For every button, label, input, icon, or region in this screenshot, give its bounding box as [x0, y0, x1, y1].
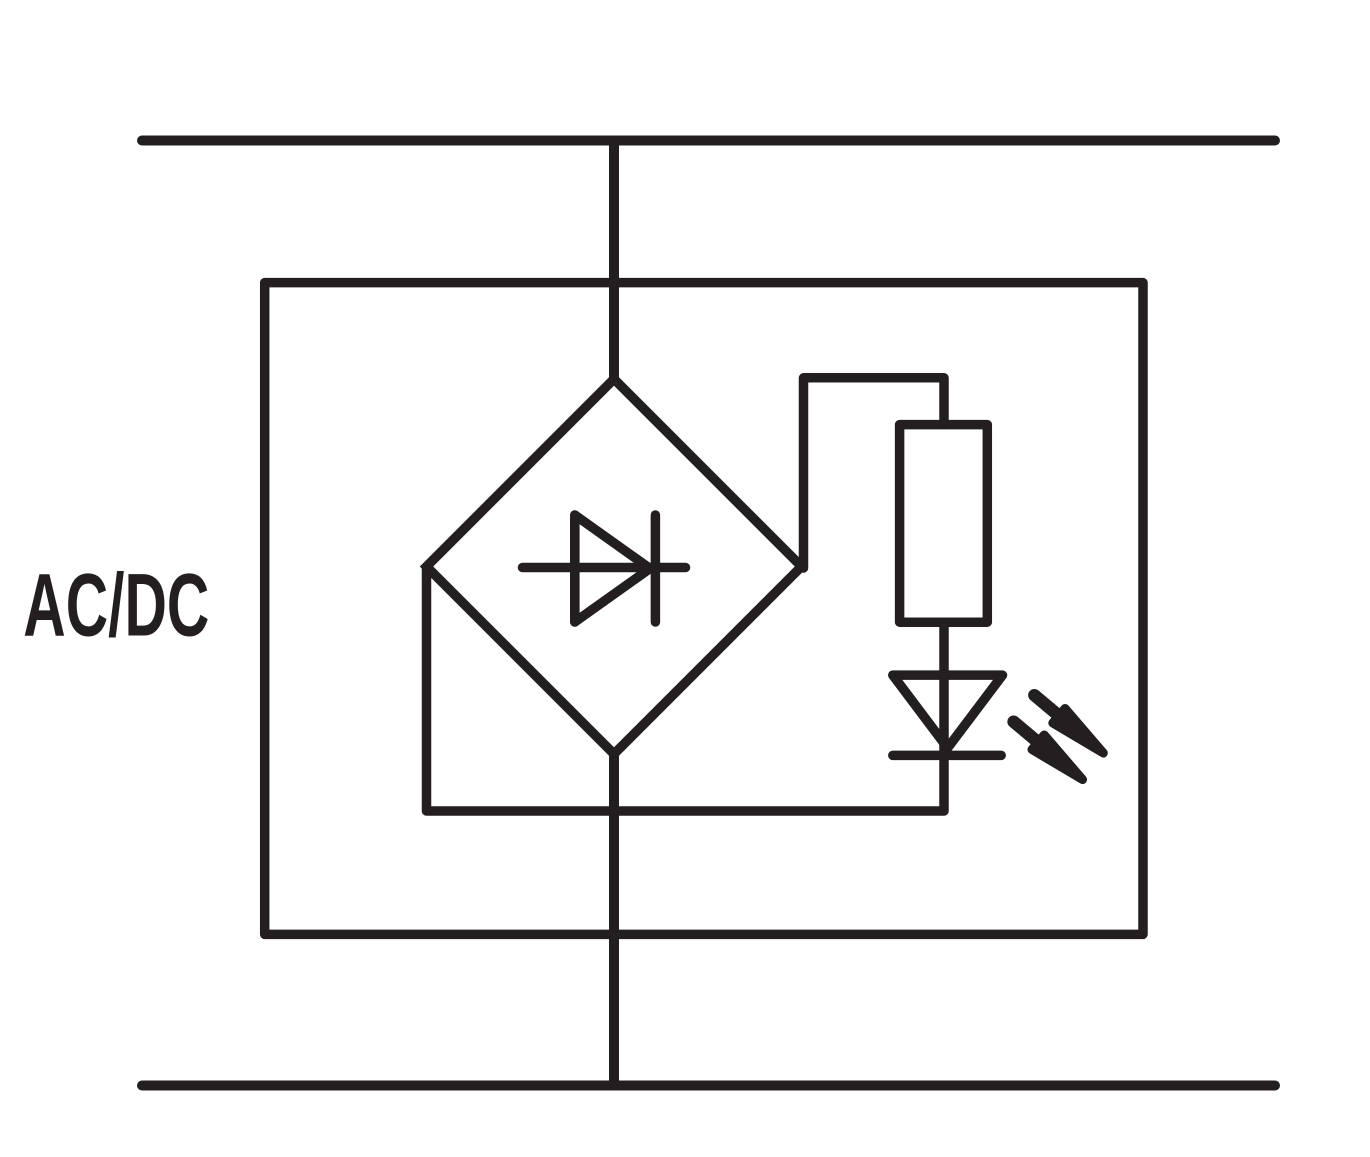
svg-text:AC/DC: AC/DC: [23, 556, 209, 655]
